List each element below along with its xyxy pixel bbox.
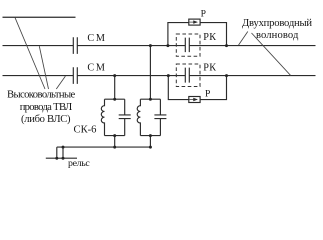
- svg-text:РК: РК: [203, 32, 216, 43]
- svg-text:Р: Р: [201, 9, 206, 20]
- svg-text:волновод: волновод: [256, 30, 299, 41]
- svg-text:СК-6: СК-6: [74, 125, 97, 136]
- svg-text:Двухпроводный: Двухпроводный: [242, 18, 312, 29]
- svg-text:рельс: рельс: [68, 158, 90, 169]
- svg-text:Р: Р: [205, 89, 210, 100]
- svg-text:СМ: СМ: [87, 33, 106, 44]
- svg-text:СМ: СМ: [87, 63, 106, 74]
- svg-text:(либо ВЛС): (либо ВЛС): [21, 114, 71, 125]
- svg-text:Высоковольтные: Высоковольтные: [7, 90, 76, 101]
- svg-text:РК: РК: [203, 63, 216, 74]
- svg-text:провода ТВЛ: провода ТВЛ: [20, 102, 72, 113]
